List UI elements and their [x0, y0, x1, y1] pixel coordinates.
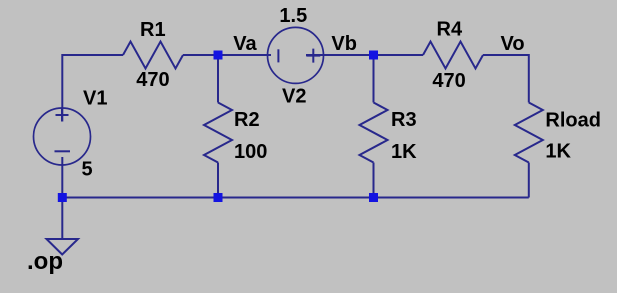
svg-text:5: 5	[82, 159, 93, 181]
node Va junction	[214, 51, 223, 60]
junction ground rail left	[58, 193, 67, 202]
svg-text:V1: V1	[83, 88, 107, 110]
voltage source V2 circle	[268, 27, 324, 83]
svg-text:Vo: Vo	[501, 33, 525, 55]
resistor R3	[360, 103, 388, 163]
wire R2 bottom to rail	[217, 163, 219, 198]
svg-text:1.5: 1.5	[279, 5, 307, 27]
node Vb junction	[369, 51, 378, 60]
svg-text:R4: R4	[437, 19, 463, 41]
svg-text:1K: 1K	[545, 141, 571, 163]
wire Rload bottom to rail	[528, 163, 530, 198]
resistor R2	[204, 103, 232, 163]
svg-text:470: 470	[432, 70, 465, 92]
svg-text:1K: 1K	[391, 141, 417, 163]
svg-text:Va: Va	[233, 33, 257, 55]
svg-text:100: 100	[234, 141, 267, 163]
resistor R1	[123, 42, 183, 69]
svg-text:Rload: Rload	[545, 109, 601, 131]
ground	[47, 239, 79, 255]
V2 plus sign	[306, 49, 320, 63]
wire node Va down to R2	[217, 55, 219, 103]
resistor Rload	[515, 103, 543, 163]
V1 minus sign	[55, 150, 71, 152]
wire R1 to V2 through node Va	[183, 54, 271, 56]
wire bottom rail	[62, 197, 529, 199]
svg-text:R1: R1	[140, 19, 166, 41]
wire top-left horizontal (V1 top to R1)	[62, 55, 123, 122]
V1 plus sign	[56, 109, 69, 122]
V2 minus sign	[277, 49, 279, 62]
junction R2 bottom	[214, 193, 223, 202]
wire V2 plus-side to node Vb to R4	[306, 54, 423, 56]
wire R3 bottom to rail	[373, 163, 375, 198]
wire node Vb down to R3	[373, 55, 375, 103]
wire V1 bottom to ground	[61, 157, 63, 239]
svg-text:Vb: Vb	[331, 33, 357, 55]
junction R3 bottom	[369, 193, 378, 202]
svg-text:.op: .op	[27, 248, 63, 275]
svg-text:R3: R3	[391, 109, 417, 131]
svg-text:R2: R2	[234, 109, 260, 131]
svg-text:470: 470	[136, 69, 169, 91]
voltage source V1 circle	[34, 108, 91, 165]
resistor R4	[423, 42, 483, 69]
wire R4 to top-right corner down to Rload	[483, 55, 529, 103]
svg-text:V2: V2	[282, 85, 306, 107]
